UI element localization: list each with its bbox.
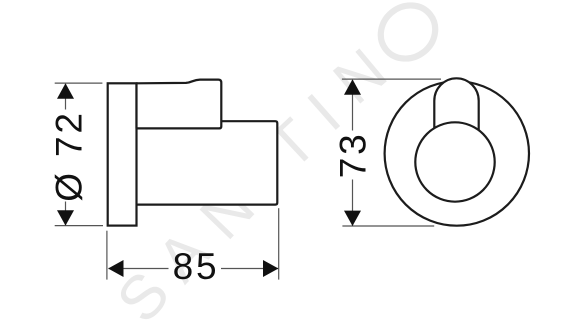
dim Ø72: bottom extension line bbox=[55, 225, 103, 227]
dim 85: left extension line bbox=[106, 231, 108, 280]
dim Ø72: top arrow bbox=[57, 83, 74, 98]
watermark letter O (large thin ring) bbox=[370, 0, 446, 70]
dim 85: left arrow bbox=[108, 260, 123, 277]
dim 73: dimension line lower segment bbox=[352, 180, 354, 226]
dim 85: dimension line left segment bbox=[109, 268, 169, 270]
svg-text:73: 73 bbox=[332, 132, 373, 179]
dim 73: top arrow bbox=[344, 79, 361, 94]
dim Ø72: top extension line bbox=[55, 82, 103, 84]
front view: back plate circle bbox=[385, 81, 529, 225]
side view: main body block bbox=[137, 121, 278, 204]
watermark SANITINO bbox=[104, 36, 400, 325]
front view: stem capsule bbox=[434, 78, 478, 136]
dim 73: dimension line upper segment bbox=[352, 80, 354, 131]
dim 73: bottom extension line bbox=[342, 225, 434, 227]
dim Ø72: dimension line lower segment bbox=[65, 202, 67, 226]
dim 85: right extension line bbox=[278, 208, 280, 279]
dim Ø72: bottom arrow bbox=[57, 210, 74, 225]
dim 85: right arrow bbox=[263, 260, 278, 277]
svg-text:Ø 72: Ø 72 bbox=[48, 110, 89, 201]
side view: wall plate bbox=[108, 83, 137, 225]
svg-text:85: 85 bbox=[173, 246, 220, 287]
dim 73: bottom arrow bbox=[344, 211, 361, 226]
front view: holder cup circle bbox=[415, 122, 494, 201]
dim 85: dimension line right segment bbox=[221, 268, 278, 270]
dim 73: top extension line bbox=[342, 78, 441, 80]
side view: holder top block bbox=[137, 80, 222, 129]
dim Ø72: dimension line upper segment bbox=[65, 84, 67, 110]
